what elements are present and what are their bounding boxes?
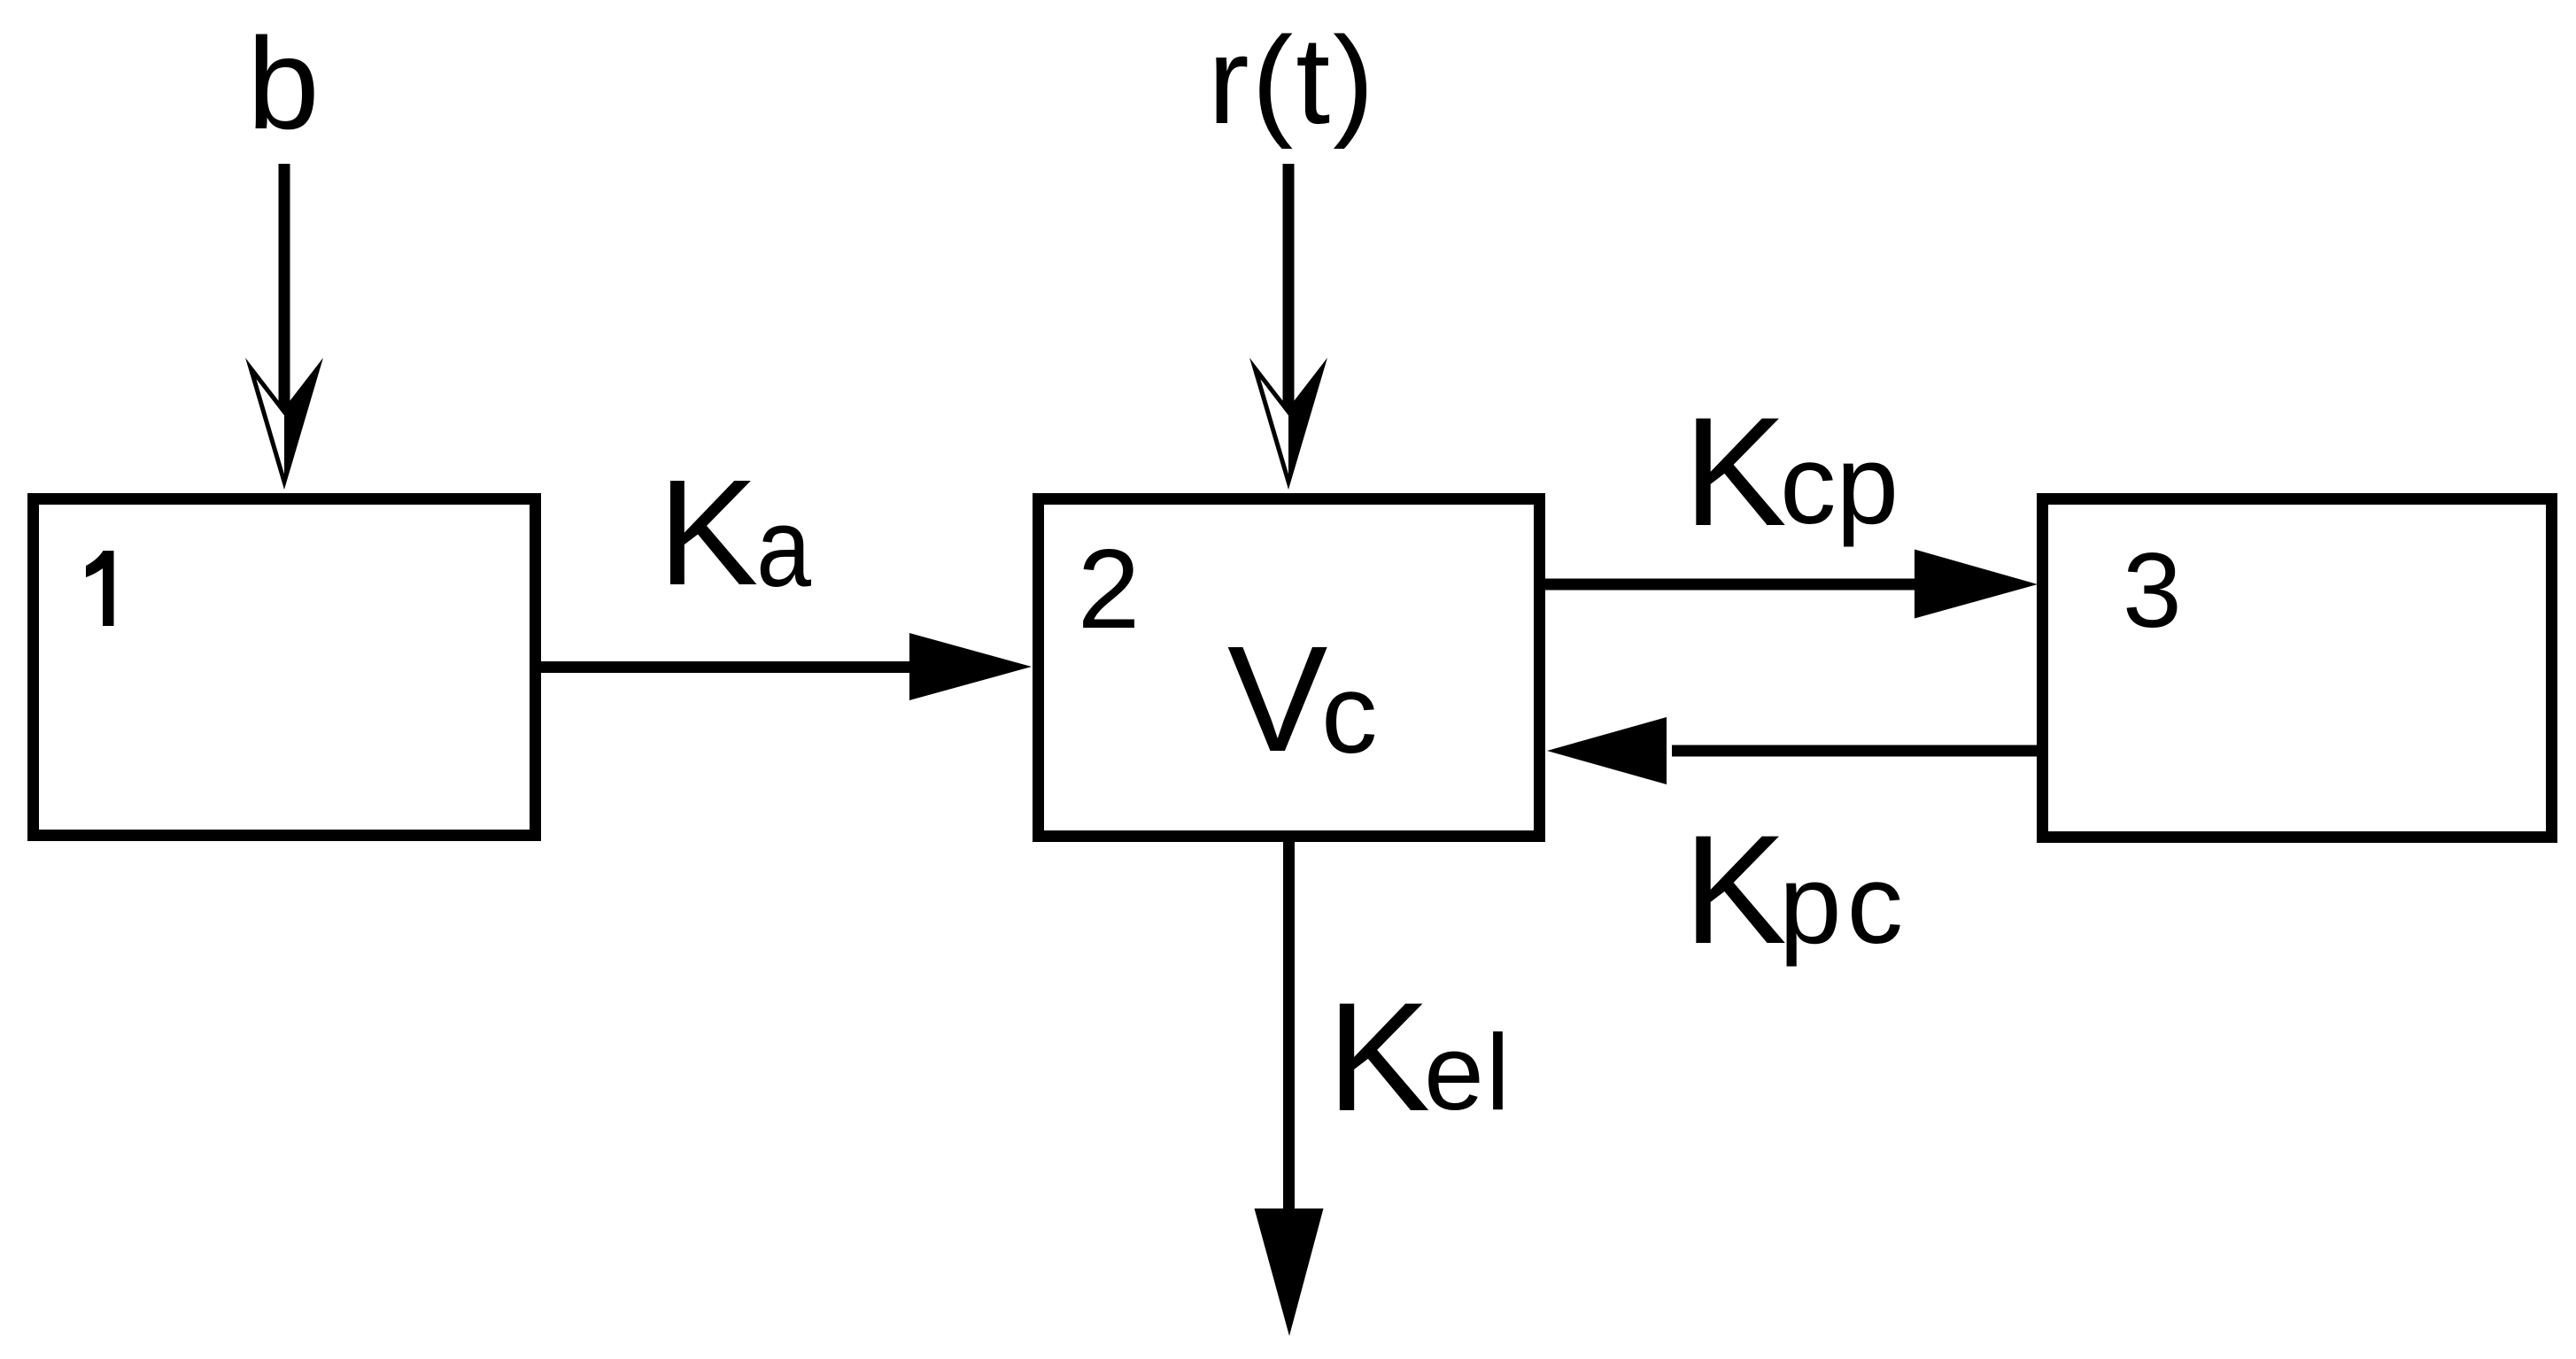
svg-text:r(t): r(t) bbox=[1208, 11, 1377, 150]
svg-text:2: 2 bbox=[1078, 526, 1141, 652]
svg-text:K: K bbox=[658, 449, 758, 617]
svg-text:3: 3 bbox=[2123, 531, 2182, 650]
svg-text:K: K bbox=[1327, 971, 1431, 1144]
svg-text:a: a bbox=[756, 484, 811, 610]
svg-text:el: el bbox=[1424, 1012, 1512, 1132]
svg-text:V: V bbox=[1227, 615, 1327, 784]
svg-text:K: K bbox=[1683, 804, 1787, 977]
svg-text:b: b bbox=[247, 12, 320, 157]
svg-text:cp: cp bbox=[1780, 421, 1899, 547]
svg-text:K: K bbox=[1683, 386, 1787, 559]
svg-text:pc: pc bbox=[1779, 841, 1908, 967]
svg-text:c: c bbox=[1321, 651, 1378, 776]
